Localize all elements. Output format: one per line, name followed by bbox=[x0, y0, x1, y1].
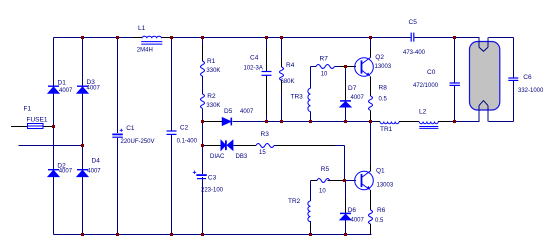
wire midbus bbox=[233, 121, 480, 123]
svg-text:Q2: Q2 bbox=[375, 54, 384, 61]
junction top bus / R1 rail bbox=[201, 36, 204, 39]
svg-text:223-100: 223-100 bbox=[201, 187, 224, 193]
transistor Q2 bbox=[355, 54, 392, 77]
diode D2 bbox=[48, 163, 73, 177]
capacitor C5 bbox=[403, 19, 426, 56]
svg-text:C3: C3 bbox=[208, 175, 217, 182]
svg-text:R5: R5 bbox=[321, 166, 330, 173]
resistor R3 bbox=[256, 131, 274, 156]
junction top bus / Q2 collector bbox=[369, 36, 372, 39]
svg-text:4007: 4007 bbox=[87, 85, 101, 91]
svg-text:D1: D1 bbox=[58, 79, 67, 86]
junction bottom bus / D6 bbox=[344, 233, 347, 236]
svg-text:Q1: Q1 bbox=[376, 167, 385, 174]
diode D6 bbox=[340, 207, 365, 223]
junction midbus / C4 bbox=[265, 120, 268, 123]
svg-text:4007: 4007 bbox=[59, 88, 73, 94]
junction Q2 base / D7 bbox=[344, 65, 347, 68]
svg-text:0.5: 0.5 bbox=[379, 96, 388, 102]
svg-text:DIAC: DIAC bbox=[210, 154, 225, 160]
wire R7 TR3 branch bbox=[311, 67, 357, 122]
svg-text:4007: 4007 bbox=[87, 168, 101, 174]
junction bottom bus / C1 rail bbox=[116, 233, 119, 236]
svg-text:TR3: TR3 bbox=[291, 94, 304, 101]
diode D3 bbox=[77, 79, 101, 93]
svg-text:TR1: TR1 bbox=[380, 126, 393, 133]
wire Q1 emitter to R6 bbox=[370, 190, 372, 235]
svg-text:R6: R6 bbox=[377, 207, 386, 214]
junction midbus / R2 rail bbox=[201, 120, 204, 123]
wire rail C1 bbox=[117, 38, 119, 235]
svg-text:FUSE1: FUSE1 bbox=[27, 117, 48, 124]
junction top bus / R4 branch bbox=[280, 36, 283, 39]
svg-text:330K: 330K bbox=[206, 103, 220, 109]
svg-text:D5: D5 bbox=[224, 108, 233, 115]
svg-text:473-400: 473-400 bbox=[403, 50, 426, 56]
svg-text:L2: L2 bbox=[419, 108, 427, 115]
svg-text:R1: R1 bbox=[207, 58, 216, 65]
capacitor C2 bbox=[167, 124, 198, 144]
wire TR2 branch bbox=[310, 181, 312, 235]
wire R4 branch bbox=[281, 38, 283, 122]
wire component lead stubs bbox=[203, 45, 451, 233]
svg-text:D7: D7 bbox=[348, 85, 357, 92]
svg-text:F1: F1 bbox=[24, 106, 32, 113]
diode D1 bbox=[48, 79, 73, 94]
junction bottom bus / D4 rail bbox=[81, 233, 84, 236]
lamp top filament and pins bbox=[479, 38, 488, 52]
junction midbus / TR3 bbox=[309, 120, 312, 123]
resistor R5 bbox=[317, 166, 330, 194]
wire R5 line bbox=[311, 180, 357, 182]
svg-text:R2: R2 bbox=[207, 93, 216, 100]
transistor Q1 bbox=[355, 167, 394, 190]
junction midbus / C0 bbox=[453, 120, 456, 123]
svg-text:4007: 4007 bbox=[351, 95, 365, 101]
wire Q2 collector bbox=[370, 38, 372, 58]
svg-text:C2: C2 bbox=[180, 124, 189, 131]
wire rail D3 D4 bbox=[82, 38, 84, 235]
wire bottom bus bbox=[54, 234, 372, 236]
capacitor C0 bbox=[413, 69, 460, 89]
svg-text:C5: C5 bbox=[409, 19, 418, 26]
svg-text:10: 10 bbox=[319, 188, 326, 194]
svg-text:R8: R8 bbox=[379, 85, 388, 92]
resistor R4 bbox=[280, 62, 295, 85]
svg-text:680K: 680K bbox=[281, 79, 295, 85]
wire C4 branch bbox=[266, 38, 268, 122]
junction top bus / C2 rail bbox=[170, 36, 173, 39]
wire D6 branch bbox=[345, 181, 347, 235]
svg-text:TR2: TR2 bbox=[288, 198, 301, 205]
svg-text:15: 15 bbox=[259, 150, 266, 156]
wire lamp right side bbox=[489, 38, 514, 122]
svg-text:330K: 330K bbox=[206, 68, 220, 74]
svg-text:C1: C1 bbox=[126, 125, 135, 132]
junction diac line / C3 rail bbox=[201, 144, 204, 147]
svg-text:220UF-250V: 220UF-250V bbox=[121, 139, 155, 145]
svg-text:4007: 4007 bbox=[351, 217, 365, 223]
svg-text:R4: R4 bbox=[286, 62, 295, 69]
svg-text:10: 10 bbox=[321, 71, 328, 77]
wire Q2 emitter to R8 bbox=[370, 77, 372, 122]
wire left rail bbox=[53, 38, 55, 235]
resistor R7 bbox=[316, 55, 334, 77]
inductor TR3 bbox=[291, 88, 311, 111]
junction top bus / D3 rail bbox=[81, 36, 84, 39]
resistor R1 bbox=[201, 58, 221, 76]
svg-text:DB3: DB3 bbox=[236, 154, 248, 160]
diode D7 bbox=[340, 85, 365, 107]
svg-text:R3: R3 bbox=[261, 131, 270, 138]
junction top bus / C1 rail bbox=[116, 36, 119, 39]
svg-text:332-1000: 332-1000 bbox=[518, 88, 544, 94]
wire AC input line 2 bbox=[19, 145, 83, 147]
junction bottom bus / C2 rail bbox=[170, 233, 173, 236]
svg-text:13003: 13003 bbox=[375, 64, 392, 70]
wire top bus bbox=[54, 37, 514, 39]
wire D7 branch bbox=[345, 67, 347, 122]
svg-text:0.1-400: 0.1-400 bbox=[177, 138, 198, 144]
inductor L1 bbox=[137, 25, 163, 54]
resistor R6 bbox=[369, 207, 386, 224]
junction AC line 2 / D3 rail bbox=[81, 144, 84, 147]
svg-text:C4: C4 bbox=[250, 55, 259, 62]
inductor L2 bbox=[419, 108, 438, 128]
wire L1 leads bbox=[132, 37, 172, 39]
svg-text:472/1000: 472/1000 bbox=[413, 83, 439, 89]
wire fuse leads bbox=[11, 126, 54, 128]
wire diac line bbox=[203, 146, 345, 181]
junction top bus / C4 branch bbox=[265, 36, 268, 39]
junction bottom bus / TR2 bbox=[309, 233, 312, 236]
wire rail R1 R2 C3 bbox=[202, 38, 204, 235]
svg-text:C0: C0 bbox=[427, 69, 436, 76]
lamp tube bbox=[470, 38, 500, 122]
junction bottom bus / C3 rail bbox=[201, 233, 204, 236]
svg-text:D6: D6 bbox=[348, 207, 357, 214]
svg-text:2M4H: 2M4H bbox=[137, 48, 153, 54]
junction midbus / D7 bbox=[344, 120, 347, 123]
capacitor C6 bbox=[508, 74, 544, 94]
diac DB3 bbox=[210, 140, 248, 160]
junction midbus / R8 Q1 collector bbox=[369, 120, 372, 123]
svg-text:0.5: 0.5 bbox=[375, 218, 384, 224]
junction fuse / left rail bbox=[52, 125, 55, 128]
transformer TR2 bbox=[288, 198, 311, 222]
junction Q1 base / D6 R5 bbox=[343, 179, 346, 182]
svg-text:4007: 4007 bbox=[240, 109, 254, 115]
fuse F1 bbox=[24, 106, 48, 129]
svg-text:102-3A: 102-3A bbox=[244, 65, 263, 71]
capacitor C3 bbox=[193, 171, 224, 194]
transformer TR1 bbox=[380, 122, 399, 133]
diode D5 bbox=[222, 108, 254, 125]
junction top bus / C0 branch bbox=[453, 36, 456, 39]
wire C0 branch bbox=[454, 38, 456, 122]
capacitor C4 bbox=[244, 55, 272, 76]
wire Q1 collector bbox=[370, 122, 372, 172]
lamp bottom filament and pins bbox=[479, 101, 488, 122]
wire rail C2 bbox=[171, 38, 173, 235]
svg-text:R7: R7 bbox=[320, 55, 329, 62]
resistor R2 bbox=[201, 93, 221, 109]
svg-text:D4: D4 bbox=[92, 158, 101, 165]
capacitor C1 bbox=[112, 125, 154, 145]
resistor R8 bbox=[369, 85, 388, 111]
svg-text:13003: 13003 bbox=[377, 183, 394, 189]
diode D4 bbox=[77, 158, 101, 177]
svg-text:L1: L1 bbox=[138, 25, 146, 32]
svg-text:C6: C6 bbox=[523, 74, 532, 81]
junction midbus / R4 bbox=[280, 120, 283, 123]
svg-text:4007: 4007 bbox=[59, 168, 73, 174]
